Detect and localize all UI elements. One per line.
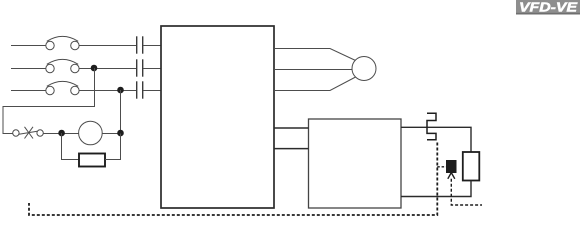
wire resistor bottom to brake unit <box>401 181 471 197</box>
node tap phase T <box>117 87 124 94</box>
node tap phase S <box>91 65 98 72</box>
sensor arrow <box>448 173 455 179</box>
wire coil to node B <box>102 133 120 135</box>
wire control tap from phase S <box>3 68 95 133</box>
wire DC bus - <box>274 148 309 150</box>
dashed sensor lead <box>451 179 482 205</box>
wire control tap from phase T <box>120 90 122 134</box>
dashed interlock wire main <box>29 143 437 216</box>
thermal overload relay contact <box>427 113 436 140</box>
contactor MC contact pole 2 <box>137 59 143 76</box>
wire output U <box>274 49 356 61</box>
breaker NFB pole 3 <box>46 81 79 94</box>
wire DC bus + <box>274 127 309 129</box>
brake unit block U2 <box>309 119 402 208</box>
wire brake unit to resistor top <box>401 127 471 152</box>
wire phase T input <box>11 90 161 92</box>
wire switch to coil <box>43 133 78 135</box>
VFD-VE logo badge <box>516 0 580 15</box>
wire surge branch left <box>62 133 80 160</box>
wire control line left <box>3 133 13 135</box>
thermal sensor block <box>446 160 457 173</box>
wire phase R input <box>11 45 161 47</box>
contactor MC contact pole 3 <box>137 81 143 98</box>
AC drive main block U1 <box>161 26 274 208</box>
svg-text:VFD-VE: VFD-VE <box>519 0 577 14</box>
node junction A <box>58 130 65 137</box>
motor IM <box>352 57 376 81</box>
wire output W <box>274 77 356 91</box>
node junction B <box>117 130 124 137</box>
dashed sensor stub <box>437 166 446 168</box>
overload trip switch SA <box>13 127 44 139</box>
wire output V <box>274 69 352 71</box>
breaker NFB pole 2 <box>46 59 79 72</box>
wire phase S input <box>11 68 161 70</box>
contactor coil MC <box>79 121 103 145</box>
contactor MC contact pole 1 <box>137 36 143 53</box>
braking resistor R2 <box>463 152 480 181</box>
breaker NFB pole 1 <box>46 36 79 49</box>
surge absorber resistor R1 <box>79 154 105 167</box>
wire surge branch right <box>105 134 121 160</box>
